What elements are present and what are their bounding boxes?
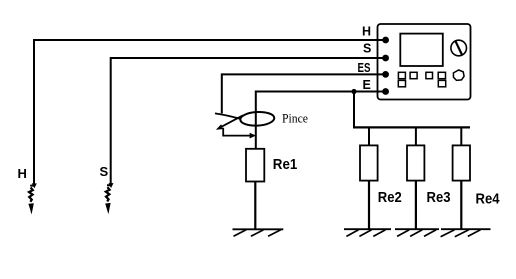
resistor Re2 xyxy=(360,145,378,180)
wire bus to Re3 xyxy=(415,127,417,145)
electrode S (earth rod squiggle) xyxy=(105,187,110,214)
svg-text:H: H xyxy=(362,25,371,39)
ground (Re1) xyxy=(233,229,284,236)
probe arrow onto conductor xyxy=(250,133,256,139)
button B5 xyxy=(398,80,405,86)
wire E: terminal E to conductor through clamp xyxy=(256,92,386,149)
button B6 xyxy=(438,80,445,86)
ground (Re2) xyxy=(344,229,391,236)
button B3 xyxy=(426,72,433,78)
resistor Re3 xyxy=(407,145,424,180)
display LCD xyxy=(400,34,443,66)
svg-text:H: H xyxy=(18,166,27,181)
resistor Re4 xyxy=(453,145,470,180)
wire Re4 to ground xyxy=(460,181,462,229)
wire Re1 to ground xyxy=(254,182,256,230)
svg-text:S: S xyxy=(100,164,109,179)
clamp handle A xyxy=(215,113,240,118)
svg-text:E: E xyxy=(363,78,371,92)
svg-text:Re3: Re3 xyxy=(427,189,451,206)
wire S end arrow xyxy=(109,183,114,188)
resistor Re1 xyxy=(246,149,264,182)
svg-text:ES: ES xyxy=(358,61,371,75)
button B2 xyxy=(410,72,417,78)
ground (Re3) xyxy=(395,229,439,236)
terminal ES (dot) xyxy=(382,71,389,78)
terminal E (dot) xyxy=(382,88,389,95)
knob (rotary switch with slot) xyxy=(451,40,467,56)
wire H: terminal H to electrode H xyxy=(30,40,385,186)
instrument U1 (earth tester body) xyxy=(378,24,471,100)
wire ES: terminal ES down to clamp handles xyxy=(222,74,386,113)
wire bus to Re2 xyxy=(368,127,370,145)
wire bus to Re4 xyxy=(460,127,462,145)
svg-text:Re1: Re1 xyxy=(273,157,298,173)
wire: junction down to bus xyxy=(353,92,355,128)
wire S: terminal S to electrode S xyxy=(107,58,386,185)
terminal H (dot) xyxy=(382,37,389,44)
button B4 xyxy=(438,72,445,78)
clamp handle B xyxy=(218,115,243,129)
svg-text:Re4: Re4 xyxy=(476,191,501,208)
wire Re3 to ground xyxy=(415,181,417,229)
wire H end arrow xyxy=(32,183,37,188)
svg-text:Re2: Re2 xyxy=(378,189,402,206)
terminal S (dot) xyxy=(382,55,389,62)
knob 2 (small polygon knob) xyxy=(453,70,464,80)
clamp Pince (jaw ellipse) xyxy=(240,111,275,126)
svg-text:Pince: Pince xyxy=(282,111,308,125)
wire Re2 to ground xyxy=(368,181,370,229)
wire bus to Re2 Re3 Re4 xyxy=(353,126,470,128)
button B1 xyxy=(398,72,405,78)
svg-text:S: S xyxy=(363,41,371,55)
electrode H (earth rod squiggle) xyxy=(28,188,33,215)
ground (Re4) xyxy=(441,229,491,237)
node junction on wire E xyxy=(351,89,356,94)
wire: clamp handle to probe arrow xyxy=(223,128,250,136)
